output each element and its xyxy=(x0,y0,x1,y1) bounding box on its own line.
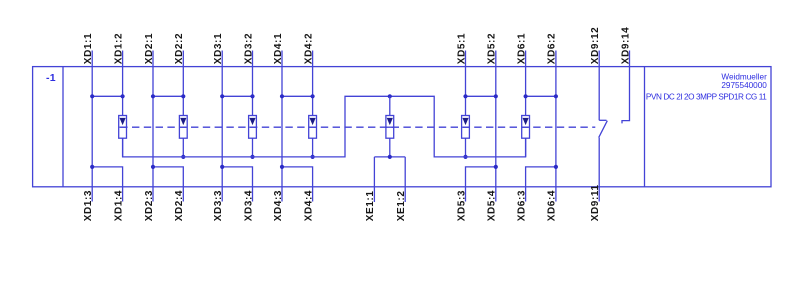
junction arrester F2 / PE bus xyxy=(181,155,185,159)
terminal label XD5:3 xyxy=(456,190,467,221)
terminal label XD2:2 xyxy=(174,33,185,64)
surge arrester F6 (XD6) xyxy=(522,116,530,139)
junction lower link XD3 xyxy=(220,165,224,169)
enclosure inner divider (right, label field) xyxy=(644,67,646,187)
terminal label XD5:1 xyxy=(456,33,467,64)
junction at XD1:2 link xyxy=(121,94,125,98)
junction lower link XD5 xyxy=(494,165,498,169)
svg-text:XD4:1: XD4:1 xyxy=(273,33,284,64)
junction at XD6:2 link xyxy=(554,94,558,98)
terminal label XE1:2 xyxy=(396,191,407,222)
terminal label XD5:4 xyxy=(487,190,498,221)
wire arrester F6 to PE bus xyxy=(525,138,527,157)
junction at XD5:1 link xyxy=(463,94,467,98)
svg-text:XD9:14: XD9:14 xyxy=(620,27,631,65)
svg-text:XD5:1: XD5:1 xyxy=(456,33,467,64)
junction at XD3:2 link xyxy=(250,94,254,98)
terminal label XD4:3 xyxy=(273,190,284,221)
junction arrester F3 / PE bus xyxy=(250,155,254,159)
svg-text:XD3:3: XD3:3 xyxy=(213,190,224,221)
terminal label XD1:2 xyxy=(113,33,124,64)
svg-text:XD1:4: XD1:4 xyxy=(113,190,124,221)
svg-text:XD2:4: XD2:4 xyxy=(174,190,185,221)
svg-text:XD9:11: XD9:11 xyxy=(590,184,601,221)
svg-text:XD1:3: XD1:3 xyxy=(83,190,94,221)
wire link XD6:1-XD6:2 xyxy=(526,95,556,97)
junction at XD6:1 link xyxy=(524,94,528,98)
wire link XD2:1-XD2:2 xyxy=(153,95,183,97)
surge arrester F3 (XD3) xyxy=(249,116,257,139)
wire terminal XD5:1 down to arrester xyxy=(465,51,467,116)
junction lower link XD2 xyxy=(151,165,155,169)
wire link XD1:1-XD1:2 xyxy=(92,95,122,97)
junction arrester F5 / PE bus xyxy=(463,155,467,159)
wire arrester F4 to PE bus xyxy=(312,138,314,157)
order number 2975540000 xyxy=(721,81,767,90)
wire link XD3:1-XD3:2 xyxy=(222,95,252,97)
device designator -1 xyxy=(46,72,56,84)
wire arrester F3 to PE bus xyxy=(252,138,254,157)
svg-text:XD5:4: XD5:4 xyxy=(487,190,498,221)
svg-text:XD6:4: XD6:4 xyxy=(547,190,558,221)
svg-text:XD2:2: XD2:2 xyxy=(174,33,185,64)
svg-text:2975540000: 2975540000 xyxy=(721,81,767,90)
terminal label XD2:3 xyxy=(144,190,155,221)
wire terminal XD9:12 xyxy=(598,51,600,121)
wire terminal XD2:2 down to arrester xyxy=(182,51,184,116)
svg-text:XD5:3: XD5:3 xyxy=(456,190,467,221)
wire terminal XD6:1 down to arrester xyxy=(525,51,527,116)
junction XE link / centre arrester xyxy=(388,155,392,159)
svg-text:XD3:4: XD3:4 xyxy=(243,190,254,221)
wire branch to terminal XD5:3 xyxy=(466,167,496,202)
terminal label XD6:4 xyxy=(547,190,558,221)
manufacturer label Weidmueller xyxy=(721,73,767,82)
terminal label XD9:11 xyxy=(590,184,601,221)
dashed mechanical linkage line xyxy=(120,126,595,128)
wire XD5 through line XD5:2 to XD5:4 xyxy=(495,51,497,202)
terminal label XE1:1 xyxy=(365,191,376,222)
junction lower link XD6 xyxy=(554,165,558,169)
svg-text:XD2:3: XD2:3 xyxy=(144,190,155,221)
terminal label XD6:2 xyxy=(547,33,558,64)
svg-text:XD1:2: XD1:2 xyxy=(113,33,124,64)
terminal label XD3:2 xyxy=(243,33,254,64)
junction at XD4:2 link xyxy=(311,94,315,98)
svg-text:XD2:1: XD2:1 xyxy=(144,33,155,64)
terminal label XD9:12 xyxy=(590,27,601,65)
svg-text:XE1:2: XE1:2 xyxy=(396,191,407,222)
wire branch to terminal XD6:3 xyxy=(526,167,556,202)
wire centre arrester to XE link xyxy=(389,138,391,157)
svg-text:XD4:2: XD4:2 xyxy=(303,33,314,64)
svg-text:XD3:2: XD3:2 xyxy=(243,33,254,64)
wire terminal XE1:1 xyxy=(373,157,375,202)
wire branch to terminal XD3:4 xyxy=(222,167,252,202)
svg-text:XD3:1: XD3:1 xyxy=(213,33,224,64)
device enclosure box -1 xyxy=(33,67,771,187)
svg-text:XD5:2: XD5:2 xyxy=(487,33,498,64)
wire arrester F2 to PE bus xyxy=(182,138,184,157)
contact tick XD9:12 xyxy=(599,119,606,121)
wire link XD5:1-XD5:2 xyxy=(466,95,496,97)
terminal label XD3:3 xyxy=(213,190,224,221)
junction at XD4:1 link xyxy=(280,94,284,98)
svg-text:XD4:4: XD4:4 xyxy=(303,190,314,221)
svg-text:XD4:3: XD4:3 xyxy=(273,190,284,221)
junction at XD3:1 link xyxy=(220,94,224,98)
svg-text:XD6:2: XD6:2 xyxy=(547,33,558,64)
wire XD3 through line XD3:1 to XD3:3 xyxy=(221,51,223,202)
terminal label XD6:3 xyxy=(516,190,527,221)
terminal label XD1:1 xyxy=(83,33,94,64)
switch blade XD9 changeover contact xyxy=(599,121,608,138)
svg-text:XD1:1: XD1:1 xyxy=(83,33,94,64)
wire terminal XD9:14 xyxy=(622,51,630,124)
wire terminal XD1:2 down to arrester xyxy=(122,51,124,116)
wire branch to terminal XD4:4 xyxy=(282,167,313,202)
wire XD1 through line XD1:1 to XD1:3 xyxy=(91,51,93,202)
wire XD4 through line XD4:1 to XD4:3 xyxy=(281,51,283,202)
surge arrester F5 (XD5) xyxy=(462,116,470,139)
terminal label XD3:4 xyxy=(243,190,254,221)
enclosure inner divider (left) xyxy=(62,67,64,187)
svg-text:XD6:3: XD6:3 xyxy=(516,190,527,221)
junction at XD2:1 link xyxy=(151,94,155,98)
terminal label XD3:1 xyxy=(213,33,224,64)
junction lower link XD1 xyxy=(90,165,94,169)
terminal label XD1:4 xyxy=(113,190,124,221)
wire terminal XD4:2 down to arrester xyxy=(312,51,314,116)
svg-text:-1: -1 xyxy=(46,72,56,84)
wire terminal XD9:11 xyxy=(598,138,600,202)
surge arrester F4 (XD4) xyxy=(309,116,317,139)
svg-text:XE1:1: XE1:1 xyxy=(365,191,376,222)
wire terminal XE1:2 xyxy=(404,157,406,202)
wire XD6 through line XD6:2 to XD6:4 xyxy=(555,51,557,202)
terminal label XD4:1 xyxy=(273,33,284,64)
junction at XD1:1 link xyxy=(90,94,94,98)
wire branch to terminal XD1:4 xyxy=(92,167,122,202)
terminal label XD6:1 xyxy=(516,33,527,64)
junction lower link XD4 xyxy=(280,165,284,169)
junction PE bridge / centre arrester xyxy=(388,94,392,98)
junction at XD5:2 link xyxy=(494,94,498,98)
wire XD2 through line XD2:1 to XD2:3 xyxy=(152,51,154,202)
terminal label XD4:2 xyxy=(303,33,314,64)
svg-text:XD6:1: XD6:1 xyxy=(516,33,527,64)
terminal label XD2:4 xyxy=(174,190,185,221)
wire arrester F5 to PE bus xyxy=(465,138,467,157)
terminal label XD9:14 xyxy=(620,27,631,65)
wire arrester F1 to PE bus xyxy=(122,138,124,157)
svg-text:XD9:12: XD9:12 xyxy=(590,27,601,65)
terminal label XD2:1 xyxy=(144,33,155,64)
wire PE bridge to centre arrester xyxy=(389,96,391,115)
terminal label XD5:2 xyxy=(487,33,498,64)
wire branch to terminal XD2:4 xyxy=(153,167,183,202)
surge arrester F2 (XD2) xyxy=(179,116,187,139)
PE bus with bridge over earth terminals xyxy=(123,96,526,157)
wire terminal XD3:2 down to arrester xyxy=(252,51,254,116)
surge arrester F1 (XD1) xyxy=(119,116,127,139)
type PVN DC 2I 2O 3MPP SPD1R CG 11 xyxy=(646,92,767,101)
junction arrester F4 / PE bus xyxy=(311,155,315,159)
svg-text:PVN DC 2I 2O 3MPP SPD1R CG 11: PVN DC 2I 2O 3MPP SPD1R CG 11 xyxy=(646,92,767,101)
terminal label XD4:4 xyxy=(303,190,314,221)
wire link XD4:1-XD4:2 xyxy=(282,95,313,97)
terminal label XD1:3 xyxy=(83,190,94,221)
surge arrester F7 (earth, XE1) xyxy=(386,116,394,139)
wire link XE1:1-XE1:2 xyxy=(374,156,405,158)
junction at XD2:2 link xyxy=(181,94,185,98)
